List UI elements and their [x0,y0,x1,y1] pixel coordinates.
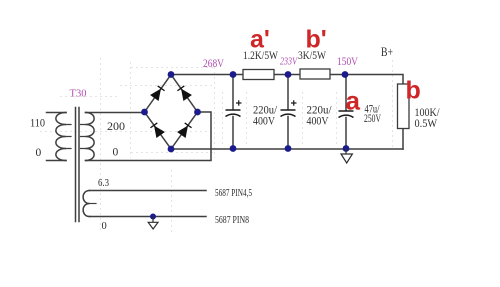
node 268V rail / C1 top [230,71,237,78]
svg-text:T30: T30 [70,88,87,100]
node bridge left [141,109,148,116]
svg-text:268V: 268V [203,58,225,70]
svg-text:b': b' [306,26,327,54]
node bridge bottom [168,146,175,153]
diode D3 (bridge left-bottom) [150,122,165,138]
node bridge top [168,71,175,78]
wire : cap C2 column [287,75,289,150]
ground (heater winding) [148,217,158,230]
transformer T30 : primary top lead [47,112,67,114]
transformer secondary 200V winding [86,113,95,161]
svg-text:0: 0 [113,147,119,159]
transformer T30 : primary winding [56,113,66,161]
transformer T30 : primary bottom lead [47,160,67,162]
svg-text:a: a [346,85,361,115]
diode D4 (bridge bottom-right) [177,122,192,138]
wire : bridge arm left-top [145,75,172,113]
svg-text:233V: 233V [280,55,298,67]
node C3 bottom / ground [343,145,350,152]
wire : 6.3V bottom to 5687 PIN8 [90,216,207,218]
transformer 6.3V winding [83,191,89,217]
capacitor C2 220u/400V [281,100,297,116]
wire : bottom ground rail [171,148,403,150]
svg-text:B+: B+ [381,44,393,59]
wire : 6.3V top to 5687 PIN4,5 [90,190,207,192]
svg-text:b: b [406,77,421,105]
svg-text:400V: 400V [307,114,329,128]
node heater 0 / ground [150,214,156,220]
svg-text:400V: 400V [253,114,275,128]
diode D2 (bridge top-right) [177,85,192,101]
svg-text:5687 PIN4,5: 5687 PIN4,5 [215,187,252,199]
node 150V rail / C3 top [342,71,349,78]
wire : secondary 0 to bridge right node (around) [86,112,212,161]
svg-text:6.3: 6.3 [98,178,109,189]
svg-text:0.5W: 0.5W [415,116,438,130]
wire : secondary top to bridge left node [86,112,145,114]
wire : bridge arm left-bottom [145,112,172,149]
svg-text:0: 0 [36,147,42,159]
node bridge right [194,109,201,116]
resistor R3 100K/0.5W [398,84,410,129]
node 233V rail / C2 top [285,71,292,78]
resistor R1 1.2K/5W [243,70,274,80]
node C1 bottom [230,145,237,152]
diode D1 (bridge left-top) [150,85,165,101]
svg-text:0: 0 [102,221,107,232]
resistor R2 3K/5W [300,69,330,79]
wire : cap C1 column [232,75,234,150]
capacitor C1 220u/400V [226,100,242,116]
capacitor C3 47u/250V [339,111,354,118]
faint grid ghost lines [40,58,393,232]
transformer core [76,108,80,222]
junction dots [141,71,349,219]
svg-text:110: 110 [30,118,45,130]
ground (main filter) [341,149,352,164]
svg-text:5687 PIN8: 5687 PIN8 [215,214,249,226]
svg-text:250V: 250V [364,113,381,125]
svg-text:150V: 150V [337,54,358,68]
svg-text:200: 200 [107,119,125,133]
wire : top rail B+ [171,75,403,150]
wire : bridge arm top-right [171,75,198,113]
wire : bridge arm bottom-right [171,112,198,149]
node C2 bottom [285,145,292,152]
svg-text:a': a' [250,26,270,54]
wire : cap C3 column [345,75,347,150]
